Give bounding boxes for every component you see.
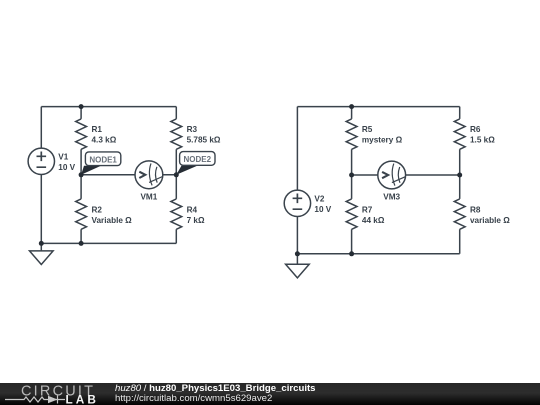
svg-text:R5: R5 [362, 125, 373, 134]
svg-text:Variable Ω: Variable Ω [92, 216, 133, 225]
svg-text:5.785 kΩ: 5.785 kΩ [187, 136, 221, 145]
svg-text:10 V: 10 V [58, 163, 75, 172]
svg-text:R2: R2 [92, 205, 103, 214]
svg-text:V2: V2 [314, 194, 324, 203]
svg-text:44 kΩ: 44 kΩ [362, 216, 385, 225]
svg-text:http://circuitlab.com/cwmn5s62: http://circuitlab.com/cwmn5s629ave2 [115, 393, 272, 404]
svg-text:R4: R4 [187, 205, 198, 214]
svg-text:10 V: 10 V [314, 205, 331, 214]
svg-text:4.3 kΩ: 4.3 kΩ [92, 136, 117, 145]
svg-text:R8: R8 [470, 205, 481, 214]
svg-text:VM1: VM1 [140, 192, 157, 201]
svg-text:1.5 kΩ: 1.5 kΩ [470, 136, 495, 145]
svg-text:NODE1: NODE1 [89, 155, 117, 164]
svg-text:R1: R1 [92, 125, 103, 134]
svg-text:variable Ω: variable Ω [470, 216, 510, 225]
svg-text:VM3: VM3 [383, 192, 400, 201]
svg-text:NODE2: NODE2 [184, 155, 212, 164]
svg-text:R6: R6 [470, 125, 481, 134]
svg-text:R7: R7 [362, 205, 373, 214]
svg-text:mystery Ω: mystery Ω [362, 136, 403, 145]
svg-text:7 kΩ: 7 kΩ [187, 216, 205, 225]
svg-text:LAB: LAB [66, 392, 100, 405]
svg-text:R3: R3 [187, 125, 198, 134]
svg-text:V1: V1 [58, 152, 68, 161]
